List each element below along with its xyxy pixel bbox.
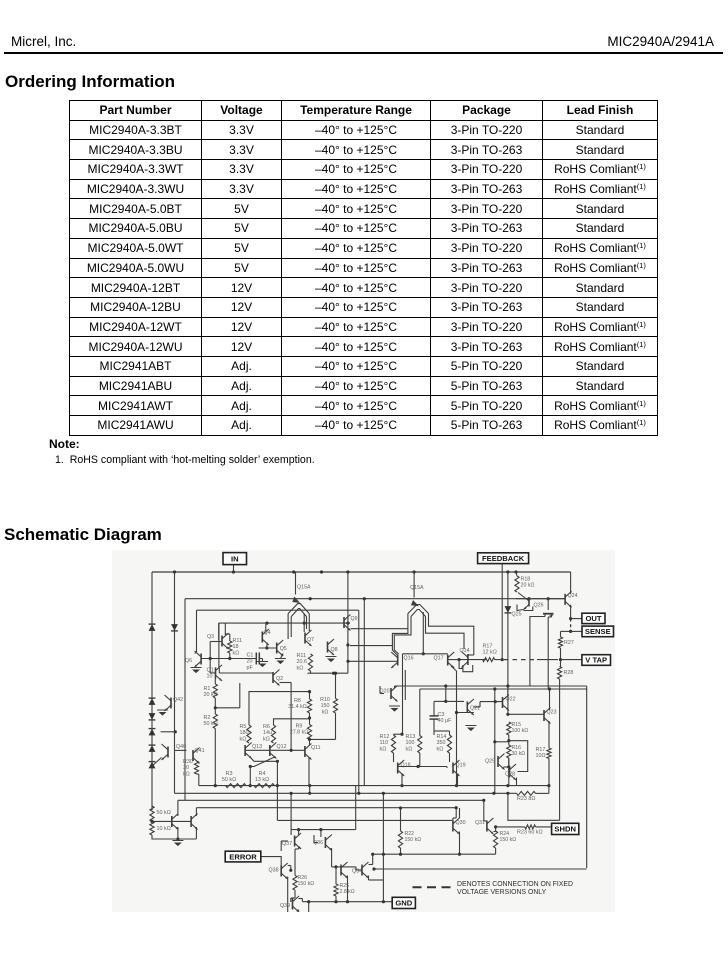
- svg-text:40 μF: 40 μF: [438, 718, 453, 724]
- wire R6 top riser: [274, 719, 310, 725]
- wire Q20 base stub: [380, 693, 384, 695]
- wire Q17 collector drop: [451, 666, 457, 671]
- wire R5 top riser: [249, 692, 310, 725]
- transistor Q8: [327, 642, 329, 653]
- wire Q26 emitter U loop: [517, 605, 524, 611]
- wire Q42 stub: [161, 731, 176, 733]
- wire IN top bus: [152, 571, 571, 573]
- wire Q27 top to bus: [547, 599, 549, 610]
- wire R1-R2 node: [214, 698, 216, 714]
- transistor Q42: [170, 698, 172, 709]
- diode chain col1 d5: [149, 729, 156, 736]
- transistor Q24: [564, 594, 566, 605]
- wire loop B left vertical: [196, 610, 198, 652]
- svg-text:R30: R30: [183, 759, 193, 765]
- wire ERROR to Q38: [261, 857, 281, 866]
- wire Q37 collector riser to bus2: [290, 793, 292, 829]
- svg-text:Q2: Q2: [276, 676, 283, 682]
- wire Q26 base bus to Q24: [516, 598, 565, 600]
- resistor R25 2.8k: [334, 884, 338, 896]
- node SHDN junction: [494, 825, 497, 828]
- resistor R24 150k: [494, 831, 498, 848]
- terminal box SENSE: [582, 626, 614, 637]
- ground below Q5: [276, 661, 284, 665]
- resistor R6 140k: [271, 725, 275, 743]
- wire Q37 collector bus: [291, 829, 321, 831]
- wire QL collector up to bus3: [177, 800, 179, 816]
- wire Q21 emitter to drop: [457, 712, 474, 714]
- wire Q36 base stub: [314, 842, 318, 844]
- wire Q23 base line: [508, 713, 544, 715]
- wire R17c bottom to bus1: [548, 759, 550, 786]
- wire loop C horizontal (Q3/Q4 collector bus): [219, 622, 350, 624]
- wire Q38 collector to R26 chain: [288, 865, 291, 867]
- svg-text:Q9: Q9: [351, 616, 358, 622]
- svg-text:SENSE: SENSE: [585, 627, 611, 636]
- wire Q37 collector: [298, 830, 300, 836]
- diode chain col1 d6: [149, 745, 156, 752]
- wire SENSE node to box: [571, 630, 582, 632]
- legend dashed symbol: [413, 886, 453, 888]
- wire Q39 collector to GND rail: [299, 898, 303, 900]
- wire Q1 to R1: [214, 678, 216, 684]
- wire Q5 emitter to ground: [280, 654, 283, 659]
- node VTAP junction: [559, 658, 562, 661]
- svg-text:30 kΩ: 30 kΩ: [512, 751, 526, 757]
- svg-text:C1: C1: [247, 653, 254, 659]
- diode chain col1 d7: [149, 762, 156, 769]
- wire R28 bottom long drop: [559, 679, 561, 820]
- svg-text:Q40: Q40: [176, 744, 186, 750]
- svg-text:R25: R25: [340, 883, 350, 889]
- wire R17b to FEEDBACK stem: [495, 659, 503, 661]
- resistor R1 20k: [213, 684, 217, 698]
- wire R28 top: [560, 660, 562, 667]
- capacitor C3 40uF: [430, 715, 439, 717]
- wire R27 top: [560, 631, 562, 637]
- dashed OUT-SENSE link: [570, 619, 572, 632]
- resistor R9 27.8k: [307, 725, 311, 740]
- svg-text:Q13: Q13: [252, 744, 262, 750]
- svg-text:Q22: Q22: [506, 697, 516, 703]
- transistor Q36: [324, 837, 326, 848]
- wire Q21 vertical from bus: [445, 686, 447, 701]
- svg-text:10: 10: [207, 674, 213, 680]
- resistor R16 30k: [507, 745, 511, 758]
- svg-text:ERROR: ERROR: [229, 852, 257, 861]
- wire R11a ends: [229, 634, 231, 641]
- svg-text:kΩ: kΩ: [322, 709, 329, 715]
- ground below Q42 emitter: [159, 712, 167, 716]
- wire R8 top/R10 top to x348 bus: [309, 692, 311, 699]
- wire riser x355.7: [355, 786, 357, 830]
- transistor Q15A left multi-collector tent: [295, 572, 297, 595]
- terminal box OUT: [582, 613, 605, 623]
- resistor R8 31.4k: [307, 699, 311, 713]
- wire Q39 emitter foot: [299, 902, 309, 913]
- transistor Q21: [466, 702, 468, 713]
- svg-text:Q28: Q28: [505, 772, 515, 778]
- node Q9 column dots: [346, 643, 349, 646]
- resistor R4 13k horizontal: [254, 784, 275, 788]
- wire R23b to box: [536, 826, 552, 828]
- transistor Q23: [543, 710, 545, 721]
- svg-text:C3: C3: [438, 712, 445, 718]
- svg-text:SHDN: SHDN: [554, 825, 576, 834]
- transistor Q20: [390, 688, 392, 699]
- wire VTAP node to box: [561, 659, 582, 661]
- wire loop C left vertical: [218, 623, 220, 640]
- wire bus1: [199, 785, 549, 787]
- resistor R17b 12k horizontal: [483, 658, 495, 662]
- transistor Q17: [447, 655, 449, 666]
- transistor Q27 sideways pnp: [543, 613, 554, 615]
- svg-text:Q29: Q29: [485, 759, 495, 765]
- transistor Q30: [452, 821, 454, 832]
- svg-text:150 kΩ: 150 kΩ: [500, 837, 517, 843]
- svg-text:Q6: Q6: [185, 658, 192, 664]
- wire C1 right to ground: [259, 658, 262, 660]
- wire Q16/Q17 emitter bus: [403, 653, 448, 655]
- wire Q24 emitter to OUT node: [570, 605, 572, 619]
- wire bottom return to Q34: [374, 868, 587, 870]
- wire Q3-Q1 base riser: [209, 642, 211, 673]
- svg-text:50 kΩ: 50 kΩ: [204, 721, 218, 727]
- svg-text:kΩ: kΩ: [380, 746, 387, 752]
- ground below C1: [259, 664, 267, 668]
- svg-text:R23 8Ω: R23 8Ω: [517, 796, 535, 802]
- svg-text:R15: R15: [512, 722, 522, 728]
- svg-text:kΩ: kΩ: [437, 746, 444, 752]
- wire IN bus right drop to Q24 collector: [570, 572, 572, 594]
- wire GND vertical long: [382, 793, 384, 901]
- wire bus689: [420, 688, 587, 690]
- svg-text:R12: R12: [380, 734, 390, 740]
- resistor R27: [558, 637, 562, 648]
- terminal box GND: [392, 897, 415, 908]
- resistor R11b 20.6k: [308, 654, 312, 671]
- node IN-bus junction dots: [173, 570, 176, 573]
- wire Q37 base from Q38 region: [281, 840, 288, 842]
- wire Q40-Q41 base line: [175, 749, 187, 751]
- svg-text:kΩ: kΩ: [297, 665, 304, 671]
- transistor Q40: [167, 747, 169, 758]
- svg-text:R6: R6: [263, 724, 270, 730]
- wire Q27 right lead down: [547, 617, 549, 689]
- transistor Q2: [272, 672, 274, 683]
- transistor Q19: [452, 763, 454, 774]
- wire box loop bottom right: [508, 793, 560, 820]
- wire Q34 emitter down: [368, 876, 370, 881]
- transistor Q31: [486, 821, 488, 832]
- resistor R11a 18k: [228, 641, 232, 653]
- wire Q9 emitter bus to tent: [351, 628, 408, 630]
- wire bus2 left corner: [174, 750, 176, 793]
- svg-text:R23 60 kΩ: R23 60 kΩ: [517, 830, 543, 836]
- wire Q9 column foot: [308, 672, 348, 674]
- svg-text:Q25: Q25: [512, 612, 522, 618]
- wire IN box stem: [233, 564, 235, 572]
- wire Q27 left lead down: [530, 617, 545, 687]
- svg-text:R11: R11: [297, 653, 307, 659]
- transistor Q37: [294, 836, 296, 847]
- transistor Q7: [304, 633, 306, 644]
- ground below Q8: [327, 659, 335, 663]
- wire Q4 collector up: [265, 623, 267, 631]
- resistor R22 150k: [398, 831, 402, 848]
- svg-text:R1: R1: [204, 686, 211, 692]
- wire R9/R10 bottoms to Q11 collector: [335, 713, 337, 739]
- svg-text:20: 20: [247, 659, 253, 665]
- wire GND rail: [302, 901, 392, 903]
- wire Q3 base: [210, 641, 222, 643]
- node loop A dots: [309, 597, 312, 600]
- svg-text:R13: R13: [406, 734, 416, 740]
- wire loop B horizontal: [197, 609, 359, 611]
- resistor R10 150k: [333, 699, 337, 714]
- wire Q4 emitter to Q5 base: [266, 645, 268, 648]
- wire Q18 emitter to bus1: [401, 774, 403, 786]
- svg-text:Q34: Q34: [352, 869, 362, 875]
- wire Q16 collector double drop: [402, 654, 404, 667]
- wire loop B right vertical drop: [358, 610, 360, 793]
- wire R11b bottom to x348 foot: [310, 671, 312, 673]
- wire Q17 base from Q14 loop: [448, 659, 459, 661]
- svg-text:Q23: Q23: [547, 710, 557, 716]
- schematic scan background: [112, 550, 615, 912]
- wire Q15A right left-limb outer: [392, 614, 408, 656]
- wire R25 bottom: [335, 896, 337, 902]
- node bus2 dots: [357, 792, 360, 795]
- wire R15/R16 side loop: [509, 741, 528, 772]
- ground below Q6: [192, 670, 200, 674]
- wire Q7 collector up: [303, 623, 305, 632]
- wire Q30 emitter down: [459, 832, 461, 855]
- transistor Q5: [276, 643, 278, 654]
- node pair emitter dot: [176, 837, 179, 840]
- svg-text:18: 18: [233, 644, 239, 650]
- svg-text:V TAP: V TAP: [585, 656, 607, 665]
- wire Q35 emitter down: [347, 876, 349, 902]
- transistor Q4: [261, 632, 263, 643]
- wire bus689 left drop to R13: [419, 689, 421, 736]
- wire Q28 emitter to bus1: [516, 778, 518, 786]
- wire Q9 column: [347, 572, 349, 673]
- svg-text:2.8 kΩ: 2.8 kΩ: [340, 889, 355, 895]
- wire Q37 emitter down: [298, 847, 300, 850]
- resistor R17c 10ohm: [547, 748, 551, 759]
- svg-text:IN: IN: [231, 554, 239, 563]
- svg-text:150: 150: [321, 703, 330, 709]
- wire loop A mid vertical drop: [363, 599, 365, 786]
- svg-text:Q42: Q42: [173, 697, 183, 703]
- transistor Q41: [192, 750, 194, 761]
- terminal box FEEDBACK: [478, 553, 529, 564]
- svg-text:100: 100: [406, 740, 415, 746]
- wire left column 2: [174, 572, 176, 750]
- diode D1 col1: [149, 624, 156, 631]
- svg-text:50 kΩ: 50 kΩ: [222, 777, 236, 783]
- svg-text:10Ω: 10Ω: [536, 753, 546, 759]
- transistor Q3: [221, 636, 223, 647]
- wire Q19 emitter to bus2: [457, 774, 459, 786]
- resistor R vert 10k: [150, 821, 154, 835]
- resistor R26 150k: [293, 875, 297, 890]
- svg-text:Q7: Q7: [307, 637, 314, 643]
- wire Q30 collector: [459, 808, 461, 818]
- ground below Q21: [467, 728, 475, 732]
- svg-text:Q37: Q37: [282, 841, 292, 847]
- svg-text:Q17: Q17: [434, 656, 444, 662]
- svg-text:180: 180: [240, 730, 249, 736]
- wire SHDN line left: [496, 826, 525, 828]
- svg-text:150 kΩ: 150 kΩ: [298, 881, 315, 887]
- svg-text:OUT: OUT: [585, 614, 601, 623]
- transistor Q29: [497, 756, 499, 767]
- wire R12/R13/R14 tops: [393, 733, 395, 736]
- svg-text:R28: R28: [564, 670, 574, 676]
- transistor Q13: [244, 745, 246, 756]
- svg-text:Q15A: Q15A: [297, 585, 311, 591]
- wire bus686: [395, 685, 587, 687]
- wire Q34/Q35 base link: [336, 866, 341, 868]
- wire Q2 emitter down to Q13 base line: [280, 682, 292, 684]
- wire R13 bottom: [419, 753, 421, 767]
- svg-text:R8: R8: [294, 698, 301, 704]
- wire R30 to bus1: [198, 774, 200, 786]
- wire Q12-Q13-Q11 base line: [245, 749, 305, 751]
- svg-text:14u: 14u: [263, 730, 272, 736]
- wire mid-bottom long link: [277, 819, 452, 821]
- wire R12 bottom to Q18: [393, 753, 395, 762]
- svg-text:kΩ: kΩ: [406, 746, 413, 752]
- svg-text:100 kΩ: 100 kΩ: [512, 728, 529, 734]
- terminal box V TAP: [582, 655, 611, 666]
- wire Q30 base drop: [455, 808, 457, 818]
- transistor Q9: [343, 617, 345, 628]
- svg-text:Q24: Q24: [568, 593, 578, 599]
- svg-text:R10: R10: [320, 697, 330, 703]
- svg-text:kΩ: kΩ: [233, 650, 240, 656]
- node C3/Q21 base node: [444, 700, 447, 703]
- wire R2 to bottom bus: [214, 729, 216, 786]
- svg-text:50 kΩ: 50 kΩ: [157, 810, 171, 816]
- wire left column 1: [151, 572, 153, 810]
- svg-text:kΩ: kΩ: [240, 736, 247, 742]
- wire loop C drop to Q1 collector: [218, 623, 220, 668]
- wire C3 top corner: [433, 703, 435, 711]
- resistor R14 350k: [447, 735, 451, 753]
- ground pair: [174, 843, 182, 847]
- wire Q23 collector up: [549, 689, 551, 710]
- resistor R30 30k: [194, 761, 198, 774]
- wire Q23 emitter down to R17c: [548, 721, 550, 748]
- svg-text:R17: R17: [536, 747, 546, 753]
- wire Q13 emitter drop: [249, 767, 251, 786]
- wire Q3 collector up: [224, 623, 226, 635]
- wire Q34 collector riser: [369, 864, 373, 866]
- transistor Q22: [502, 697, 504, 708]
- terminal box IN: [223, 553, 247, 565]
- wire Q14 emitter loop to Q17 base node: [463, 665, 473, 672]
- wire Q25 vertical: [507, 572, 509, 714]
- svg-text:20 kΩ: 20 kΩ: [521, 583, 535, 589]
- wire Q13/Q12 cross-couple: [250, 757, 278, 761]
- svg-text:R9: R9: [296, 724, 303, 730]
- svg-text:R5: R5: [240, 724, 247, 730]
- svg-text:R4: R4: [259, 771, 266, 777]
- wire R22 top: [400, 808, 402, 831]
- wire col1 to ground corner: [152, 835, 196, 839]
- wire Q22 collector up: [507, 686, 509, 697]
- svg-text:GND: GND: [395, 899, 412, 908]
- wire right outer vertical: [586, 686, 588, 868]
- node bus1 dots: [214, 784, 217, 787]
- wire R27 bottom to VTAP: [560, 648, 562, 660]
- svg-text:R27: R27: [564, 640, 574, 646]
- wire QL emitter down: [177, 827, 179, 839]
- diode chain col1 d4: [149, 713, 156, 720]
- node 50k-10k junction: [150, 820, 153, 823]
- wire Q15A right center drop: [422, 612, 424, 654]
- svg-text:Q4: Q4: [264, 630, 271, 636]
- resistor R15 100k: [507, 722, 511, 735]
- resistor R13 100k: [418, 736, 422, 754]
- svg-text:Q12: Q12: [277, 744, 287, 750]
- wire pair base link: [152, 820, 172, 822]
- svg-text:kΩ: kΩ: [263, 736, 270, 742]
- wire bus1 right corner down: [548, 786, 550, 794]
- wire R8-R9 link: [309, 713, 311, 725]
- capacitor C1 20pF: [255, 653, 257, 665]
- transistor Q12: [269, 745, 271, 756]
- resistor R2 50k: [213, 714, 217, 729]
- wire Q14 to R17 line: [459, 659, 486, 661]
- svg-text:R26: R26: [298, 875, 308, 881]
- diode chain col1 d3: [149, 698, 156, 705]
- transistor Q38: [280, 866, 282, 877]
- wire Q29 base vertical: [494, 689, 496, 793]
- transistor Q26: [528, 599, 530, 607]
- node Q34 base node: [334, 865, 337, 868]
- transistor Q11: [304, 746, 306, 757]
- resistor R12 110k: [391, 735, 395, 753]
- wire Q8 bus to tent limb: [350, 645, 392, 647]
- resistor R18 20k: [515, 576, 519, 592]
- svg-text:R2: R2: [204, 715, 211, 721]
- transistor Q6: [200, 654, 202, 665]
- svg-text:kΩ: kΩ: [183, 771, 190, 777]
- wire R23a right link: [536, 792, 549, 794]
- wire Q16 base line: [348, 660, 398, 662]
- node OUT junction: [569, 617, 572, 620]
- resistor R23b 60k horizontal: [525, 825, 536, 829]
- wire bus2: [175, 792, 517, 794]
- wire base bus y658.5: [201, 658, 256, 660]
- svg-text:350: 350: [437, 740, 446, 746]
- transistor Q14: [467, 654, 469, 665]
- svg-text:Q18: Q18: [401, 763, 411, 769]
- transistor QR of pair: [190, 816, 192, 827]
- svg-text:Q11: Q11: [311, 745, 321, 751]
- svg-text:Q26: Q26: [534, 603, 544, 609]
- svg-text:DENOTES CONNECTION ON FIXED: DENOTES CONNECTION ON FIXED: [457, 881, 573, 888]
- svg-text:Q14: Q14: [460, 648, 470, 654]
- svg-text:Q19: Q19: [456, 763, 466, 769]
- svg-text:VOLTAGE VERSIONS ONLY: VOLTAGE VERSIONS ONLY: [457, 889, 547, 896]
- wire bus3: [178, 799, 484, 801]
- transistor QL of pair: [171, 816, 173, 827]
